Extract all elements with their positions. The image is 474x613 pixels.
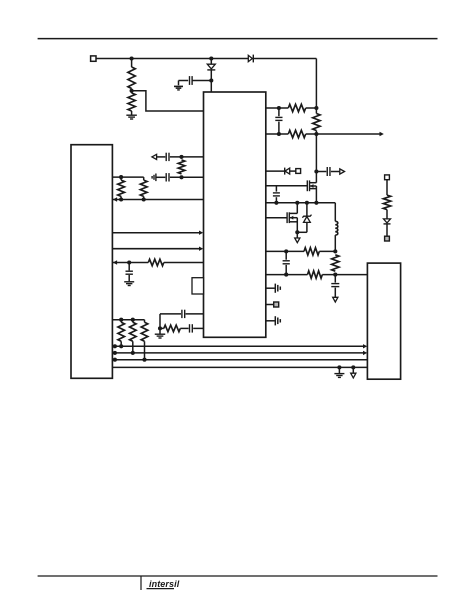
node row2-feed xyxy=(314,132,318,136)
capacitor C3 xyxy=(327,167,330,176)
wire bus3 xyxy=(112,359,367,361)
arrow VCC out xyxy=(380,132,384,137)
diode D1 xyxy=(207,59,215,93)
diode D3 xyxy=(285,168,290,175)
resistor R9 xyxy=(178,160,185,174)
wire D5-J5 xyxy=(386,224,388,236)
wire row2 xyxy=(266,133,289,135)
resistor R2 xyxy=(128,93,135,115)
zener D4 xyxy=(302,203,311,233)
node Q2-source xyxy=(295,230,299,234)
node rail-R1 xyxy=(130,56,134,60)
arrow bus2 xyxy=(363,351,367,355)
ground G4 xyxy=(155,328,166,338)
wire rbank-top xyxy=(112,319,144,321)
resistor R8 xyxy=(332,255,339,271)
top rule xyxy=(38,38,438,40)
resistor R15 xyxy=(141,320,148,360)
resistor R3 xyxy=(288,104,305,111)
footer tick xyxy=(140,576,142,590)
wire vout-rowb xyxy=(319,250,335,252)
node rowA xyxy=(179,155,183,159)
node bus3-left xyxy=(113,358,117,362)
resistor R13 xyxy=(118,320,125,347)
wire bus4 xyxy=(112,366,367,368)
intersil logo xyxy=(147,579,180,589)
wire rowB-a xyxy=(156,176,165,178)
wire bus VID1 xyxy=(112,232,199,234)
wire comp-top xyxy=(160,313,181,315)
footer rule xyxy=(38,575,438,577)
capacitor C10 xyxy=(166,153,169,161)
wire rowA-a xyxy=(157,156,166,158)
node phase-Q1 xyxy=(314,201,318,205)
node bus1-R13 xyxy=(119,344,123,348)
block right xyxy=(367,263,400,379)
wire row1b xyxy=(306,107,317,109)
capacitor C12 xyxy=(182,310,185,318)
capacitor C7 xyxy=(126,263,133,282)
box U1-sub xyxy=(192,278,204,294)
wire G2-C1 xyxy=(179,80,189,82)
capacitor C4 boot xyxy=(273,186,280,203)
wire rowA-b xyxy=(170,156,204,158)
node vout-C5 xyxy=(284,249,288,253)
node bus1-left xyxy=(113,344,117,348)
node fb-C5 xyxy=(284,273,288,277)
node rowD xyxy=(127,260,131,264)
capacitor C2 xyxy=(275,108,282,134)
terminal J5 xyxy=(385,236,390,241)
wire fb-row xyxy=(266,274,308,276)
wire bus2 xyxy=(112,352,363,354)
arrow VID2 xyxy=(199,247,203,251)
ground G6 xyxy=(152,174,156,182)
wire J4-R17 xyxy=(386,180,388,195)
resistor R1 xyxy=(128,59,135,89)
resistor R11 xyxy=(140,177,147,199)
node bus2-R14 xyxy=(131,351,135,355)
node rowBL-R10 xyxy=(119,175,123,179)
node row1-feed xyxy=(314,106,318,110)
capacitor C6 xyxy=(331,275,339,298)
wire UGATE xyxy=(266,185,308,187)
wire rowC xyxy=(112,199,203,201)
resistor R16 xyxy=(164,325,181,332)
capacitor C8 bypass xyxy=(266,284,281,293)
node D1-C1 xyxy=(209,78,213,82)
node phase-D4 xyxy=(305,201,309,205)
wire rowD-b xyxy=(164,262,204,264)
terminal J3 xyxy=(266,302,279,307)
wire Q2src-D4 xyxy=(297,231,307,233)
node vout-L1 xyxy=(333,249,337,253)
resistor R6 xyxy=(304,248,319,255)
node rbank2 xyxy=(131,318,135,322)
node phase-Q2 xyxy=(295,201,299,205)
ground G2 xyxy=(174,81,183,91)
wire vout-row xyxy=(266,250,304,252)
node bus3-R15 xyxy=(142,358,146,362)
resistor R5 xyxy=(313,114,320,131)
wire LGATE xyxy=(266,217,287,219)
wire bus1 xyxy=(112,345,363,347)
resistor R7 xyxy=(308,271,323,278)
transistor Q2 xyxy=(287,203,297,233)
node rbank1 xyxy=(119,318,123,322)
node rail-D1 xyxy=(209,56,213,60)
arrow gnd A3 xyxy=(351,367,356,378)
wire bus VID2 xyxy=(112,248,199,250)
wire row2b xyxy=(306,133,380,135)
resistor R17 xyxy=(383,195,390,210)
node rowB xyxy=(179,175,183,179)
IC U1 xyxy=(204,92,266,337)
node fb-R8 xyxy=(333,273,337,277)
arrow VID1 xyxy=(199,231,203,235)
wire top rail xyxy=(96,58,316,60)
arrow gnd A2 xyxy=(333,297,338,302)
arrow rowA in xyxy=(152,154,157,159)
resistor R10 xyxy=(118,177,125,199)
node rowC-R10 xyxy=(119,197,123,201)
wire rowD-a xyxy=(112,262,148,264)
wire comp-mid xyxy=(160,327,189,329)
node R1-R2 xyxy=(130,89,134,94)
wire C3-arrow xyxy=(331,171,340,173)
ground G3 xyxy=(124,282,134,286)
wire rowB-left xyxy=(112,176,143,178)
terminal J4 xyxy=(385,175,390,180)
resistor R12 xyxy=(148,259,164,266)
node row2-cap xyxy=(277,132,281,136)
node phase-C4 xyxy=(274,201,278,205)
wire vin-feed xyxy=(315,59,317,114)
wire row1 xyxy=(266,107,289,109)
ground G1 xyxy=(126,115,137,119)
wire R1R2-to-IC xyxy=(132,91,204,111)
node rowC-R11 xyxy=(142,197,146,201)
diode D5 xyxy=(384,219,391,224)
wire fb-rowb xyxy=(322,274,367,276)
wire comp-topb xyxy=(186,313,204,315)
resistor R4 xyxy=(288,130,305,137)
wire boot-C3 xyxy=(316,171,326,173)
node bus2-left xyxy=(113,351,117,355)
wire phase xyxy=(266,202,336,204)
wire rowB-b xyxy=(170,176,204,178)
capacitor C1 xyxy=(190,76,193,85)
input terminal J1 xyxy=(91,56,96,61)
wire C1-D1node xyxy=(192,80,211,82)
block left CPU xyxy=(71,145,112,379)
arrow gnd A1 xyxy=(295,232,300,242)
arrow bus1 xyxy=(363,344,367,348)
capacitor C11 xyxy=(166,173,169,181)
node row1-cap xyxy=(277,106,281,110)
wire comp-up xyxy=(159,314,161,329)
transistor Q1 xyxy=(307,180,316,202)
capacitor C5 xyxy=(283,251,290,274)
arrow rowC out xyxy=(113,197,117,201)
capacitor C13 xyxy=(190,324,193,332)
node bus4-A3 xyxy=(351,365,355,369)
arrow rowD out xyxy=(113,260,117,264)
ground G5 xyxy=(334,367,344,377)
node comp xyxy=(158,326,162,330)
svg-text:intersil: intersil xyxy=(149,579,180,589)
arrow boot out xyxy=(340,169,345,174)
wire R17-D5 xyxy=(386,210,388,219)
wire feed-to-Q1drain xyxy=(315,131,317,183)
resistor R14 xyxy=(130,320,137,353)
inductor L1 xyxy=(335,203,338,252)
terminal J2 xyxy=(296,169,301,174)
wire D3-J2 xyxy=(290,170,296,172)
wire EN-pin xyxy=(266,170,285,172)
diode D2 xyxy=(248,55,253,63)
node boot xyxy=(314,169,318,173)
node bus4-G5 xyxy=(337,365,341,369)
capacitor C9 bypass xyxy=(266,316,281,325)
wire comp-midb xyxy=(193,327,203,329)
